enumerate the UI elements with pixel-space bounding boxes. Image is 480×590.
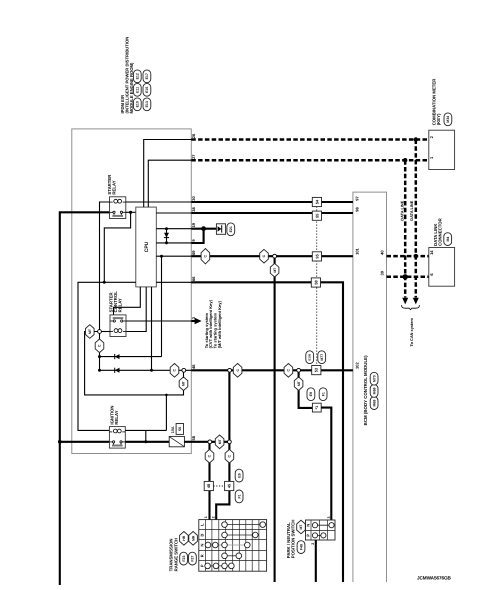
junction (98, 355, 101, 358)
svg-text:R: R (200, 554, 205, 557)
hexagon C (95, 339, 104, 353)
connector E21 (216, 224, 225, 235)
svg-text:F1: F1 (237, 494, 241, 498)
transmission range switch (199, 520, 267, 572)
svg-text:HR: HR (182, 535, 186, 540)
connector E9 (235, 469, 243, 482)
svg-text:M70: M70 (372, 375, 376, 382)
IPDM E/R box (72, 129, 192, 454)
junction (129, 211, 132, 214)
node option split (208, 440, 212, 444)
starter relay (110, 197, 126, 219)
wire CAN2 riser (148, 160, 191, 207)
hexagon MT (179, 377, 188, 391)
svg-text:E17: E17 (145, 73, 149, 79)
wire CPU to contact (114, 287, 141, 315)
wire pin19 node (191, 228, 216, 230)
svg-text:14: 14 (429, 250, 434, 255)
wire riser to pin46 wire (228, 372, 230, 440)
connector E15 (143, 83, 151, 96)
wire pin69 to BCM 101 (191, 255, 353, 257)
node option split (228, 368, 232, 372)
wire pin9 branch (191, 229, 203, 243)
connector E9 (307, 388, 315, 401)
brace (402, 305, 420, 310)
wire MT variant loop (85, 332, 184, 395)
ignition relay (109, 427, 125, 449)
hexagon HR (180, 532, 189, 546)
svg-text:(KEY): (KEY) (436, 113, 441, 125)
svg-text:58: 58 (191, 435, 196, 440)
svg-text:DATA LINE: DATA LINE (399, 200, 404, 220)
junction (403, 274, 408, 279)
svg-text:46: 46 (191, 364, 196, 369)
junction (414, 137, 418, 141)
wire pin30 to BCM 97 (191, 201, 353, 203)
connector E12 (133, 70, 141, 83)
BCM box (353, 192, 387, 582)
arrow to CAN 2 (413, 298, 419, 305)
connector E108 (306, 351, 314, 364)
svg-text:E15: E15 (145, 87, 149, 93)
svg-text:DATA LINE: DATA LINE (409, 200, 414, 220)
svg-text:26: 26 (191, 133, 196, 138)
junction (144, 440, 147, 443)
svg-text:*1: *1 (315, 406, 319, 410)
CAN line 1 (191, 138, 428, 141)
connector 45 (225, 481, 234, 490)
wire pin66 to BCM branch (191, 282, 343, 582)
svg-text:To CAN system: To CAN system (409, 317, 414, 346)
connector 54 (312, 197, 321, 206)
diode D1 (166, 229, 168, 243)
hexagon C (233, 364, 242, 378)
svg-text:101: 101 (354, 247, 359, 254)
wire ignition coil riser (78, 282, 136, 430)
connector F1 (235, 490, 243, 503)
hexagon C (284, 364, 293, 378)
svg-text:102: 102 (354, 362, 359, 369)
wire BCM 39 to DLC 6 (387, 276, 429, 279)
connector 48 (204, 481, 213, 490)
wire BCM 40 to DLC 14 (387, 255, 429, 258)
wire starting system stub (191, 320, 195, 322)
svg-text:1: 1 (204, 516, 208, 518)
connector M4 (444, 233, 452, 246)
svg-text:38: 38 (191, 206, 196, 211)
wire relay to fuse (125, 441, 169, 443)
wire contact to CPU (126, 211, 136, 213)
svg-text:3: 3 (327, 517, 331, 519)
svg-text:(M/T with Intelligent Key): (M/T with Intelligent Key) (217, 301, 222, 349)
svg-text:E12: E12 (136, 73, 140, 79)
joint connector dotted link (316, 207, 318, 366)
svg-text:M77: M77 (320, 354, 324, 361)
wire CPU pin69 out (156, 255, 191, 257)
svg-text:10A: 10A (171, 426, 175, 433)
svg-text:CPU: CPU (144, 241, 150, 252)
svg-text:N: N (306, 524, 311, 527)
connector M68 (370, 397, 378, 410)
junction (103, 281, 106, 284)
hexagon MT (215, 435, 224, 449)
hexagon MT (86, 325, 95, 339)
CAN vertical 1 (415, 140, 418, 298)
svg-text:M68: M68 (372, 400, 376, 407)
svg-text:69: 69 (191, 250, 196, 255)
svg-text:E108: E108 (308, 353, 312, 360)
wire fuse out pin 58 (184, 441, 209, 443)
CAN line 2 (191, 159, 428, 162)
junction (414, 254, 418, 258)
svg-text:56: 56 (178, 427, 182, 431)
svg-text:27: 27 (191, 154, 196, 159)
connector *1 (312, 403, 321, 412)
data link connector box (429, 248, 455, 287)
diode D2 (115, 354, 120, 359)
svg-text:E13: E13 (145, 101, 149, 107)
svg-text:P: P (306, 534, 311, 537)
node option split (228, 440, 232, 444)
svg-text:2: 2 (311, 543, 315, 545)
wire fuse branch (210, 441, 230, 443)
wire coil to pin 30 (126, 201, 192, 203)
junction (165, 241, 168, 244)
svg-text:F23: F23 (182, 556, 186, 562)
svg-text:BCM (BODY CONTROL MODULE): BCM (BODY CONTROL MODULE) (363, 355, 368, 425)
hexagon C (170, 364, 179, 378)
wire to ignition relay (60, 441, 110, 443)
node option split (273, 254, 277, 258)
svg-text:RANGE SWITCH: RANGE SWITCH (174, 538, 179, 572)
svg-text:N: N (200, 543, 205, 546)
connector 53 (312, 366, 321, 375)
wire battery feed (60, 212, 110, 585)
junction (58, 440, 62, 444)
wire MT drop to ground (274, 258, 276, 582)
junction (403, 158, 407, 162)
wire CAN1 riser (144, 140, 192, 208)
svg-text:M69: M69 (372, 387, 376, 394)
hexagon C (260, 249, 269, 263)
junction (160, 255, 163, 258)
hexagon C (225, 449, 234, 463)
svg-text:POSITION SWITCH: POSITION SWITCH (291, 520, 296, 559)
svg-text:66: 66 (191, 276, 196, 281)
connector F27 (189, 552, 197, 565)
junction (201, 226, 206, 231)
svg-text:RELAY: RELAY (112, 180, 117, 194)
wire diode1 (100, 356, 162, 358)
svg-text:2: 2 (212, 516, 216, 518)
wire to range switch 1 (208, 444, 210, 520)
wire CPU to diode node (151, 287, 153, 370)
wire pin38 to BCM 98 (191, 212, 353, 214)
svg-text:RELAY: RELAY (117, 298, 122, 312)
wire CPU to coil (126, 287, 146, 332)
wire to PN switch pin3 (321, 408, 331, 520)
hexagon MR (189, 532, 198, 546)
connector E10 (133, 98, 141, 111)
connector E17 (143, 70, 151, 83)
svg-text:MR: MR (191, 535, 195, 541)
connector E11 (133, 83, 141, 96)
wire to range switch 2 (216, 444, 229, 520)
wire MT branch to PN switch (299, 372, 313, 408)
arrow to CAN 1 (402, 298, 408, 305)
node option split (297, 368, 301, 372)
svg-text:F27: F27 (191, 556, 195, 562)
connector M34 (444, 113, 452, 126)
wire C variant drop (99, 333, 101, 370)
hexagon MT (294, 377, 303, 391)
wire pin46 to BCM 102 (191, 369, 353, 371)
CPU U1 (136, 207, 157, 287)
connector M77 (318, 351, 326, 364)
wire CPU pin19 out (156, 228, 191, 230)
svg-text:30: 30 (191, 195, 196, 200)
wire ignition coil T (165, 395, 167, 431)
connector 55 (312, 211, 321, 220)
park neutral position switch (306, 520, 336, 540)
node option split (98, 330, 102, 334)
svg-text:M4: M4 (446, 237, 450, 242)
svg-text:E9: E9 (309, 392, 313, 396)
svg-text:97: 97 (354, 195, 359, 200)
hexagon C (201, 249, 210, 264)
wire hook to CPU pin (104, 212, 130, 282)
connector M70 (370, 372, 378, 385)
svg-text:40: 40 (380, 250, 385, 255)
diode D3 (115, 368, 120, 373)
wire diode2 to pin 46 (100, 369, 192, 371)
connector M69 (370, 385, 378, 398)
svg-text:RELAY: RELAY (114, 410, 119, 424)
starter control relay (110, 315, 126, 337)
wire CPU pin38 out (156, 212, 191, 214)
svg-text:E10: E10 (136, 101, 140, 107)
connector F1 (319, 388, 327, 401)
svg-text:98: 98 (354, 206, 359, 211)
svg-text:E21: E21 (229, 226, 233, 232)
svg-text:F1: F1 (321, 392, 325, 396)
wire CPU pin66 out (156, 281, 191, 283)
svg-text:F49: F49 (299, 544, 303, 550)
connector F49 (297, 541, 305, 554)
wire ignition coil right (125, 429, 166, 431)
wire PN to ground (315, 540, 317, 582)
svg-text:E9: E9 (237, 473, 241, 477)
svg-text:JCMWA5676GB: JCMWA5676GB (417, 576, 452, 581)
connector 58 (311, 278, 320, 287)
hexagon MT (297, 520, 306, 534)
CAN vertical 2 (404, 160, 407, 297)
wire CPU pin9 out (156, 242, 191, 244)
hexagon C (205, 449, 214, 463)
svg-text:P: P (200, 564, 205, 567)
svg-text:CONNECTOR: CONNECTOR (438, 217, 443, 246)
wire starter relay coil jog (100, 202, 110, 330)
svg-text:M34: M34 (446, 116, 450, 123)
svg-text:39: 39 (380, 270, 385, 275)
connector 95 (312, 252, 321, 261)
connector F23 (180, 552, 188, 565)
svg-text:E11: E11 (136, 87, 140, 93)
junction (98, 369, 101, 372)
hexagon MT (270, 263, 279, 277)
combination meter box (429, 130, 455, 169)
wire contact to starting system (126, 320, 191, 322)
wire coil tap (145, 430, 147, 441)
connector E13 (143, 98, 151, 111)
junction (165, 227, 168, 230)
node option split (182, 368, 186, 372)
svg-text:19: 19 (191, 222, 196, 227)
wire branch to control relay contact (161, 256, 163, 356)
wire coil left (100, 331, 111, 333)
junction (165, 394, 168, 397)
junction (150, 369, 153, 372)
svg-text:D: D (200, 533, 205, 536)
fuse 10A 56 (169, 436, 184, 446)
